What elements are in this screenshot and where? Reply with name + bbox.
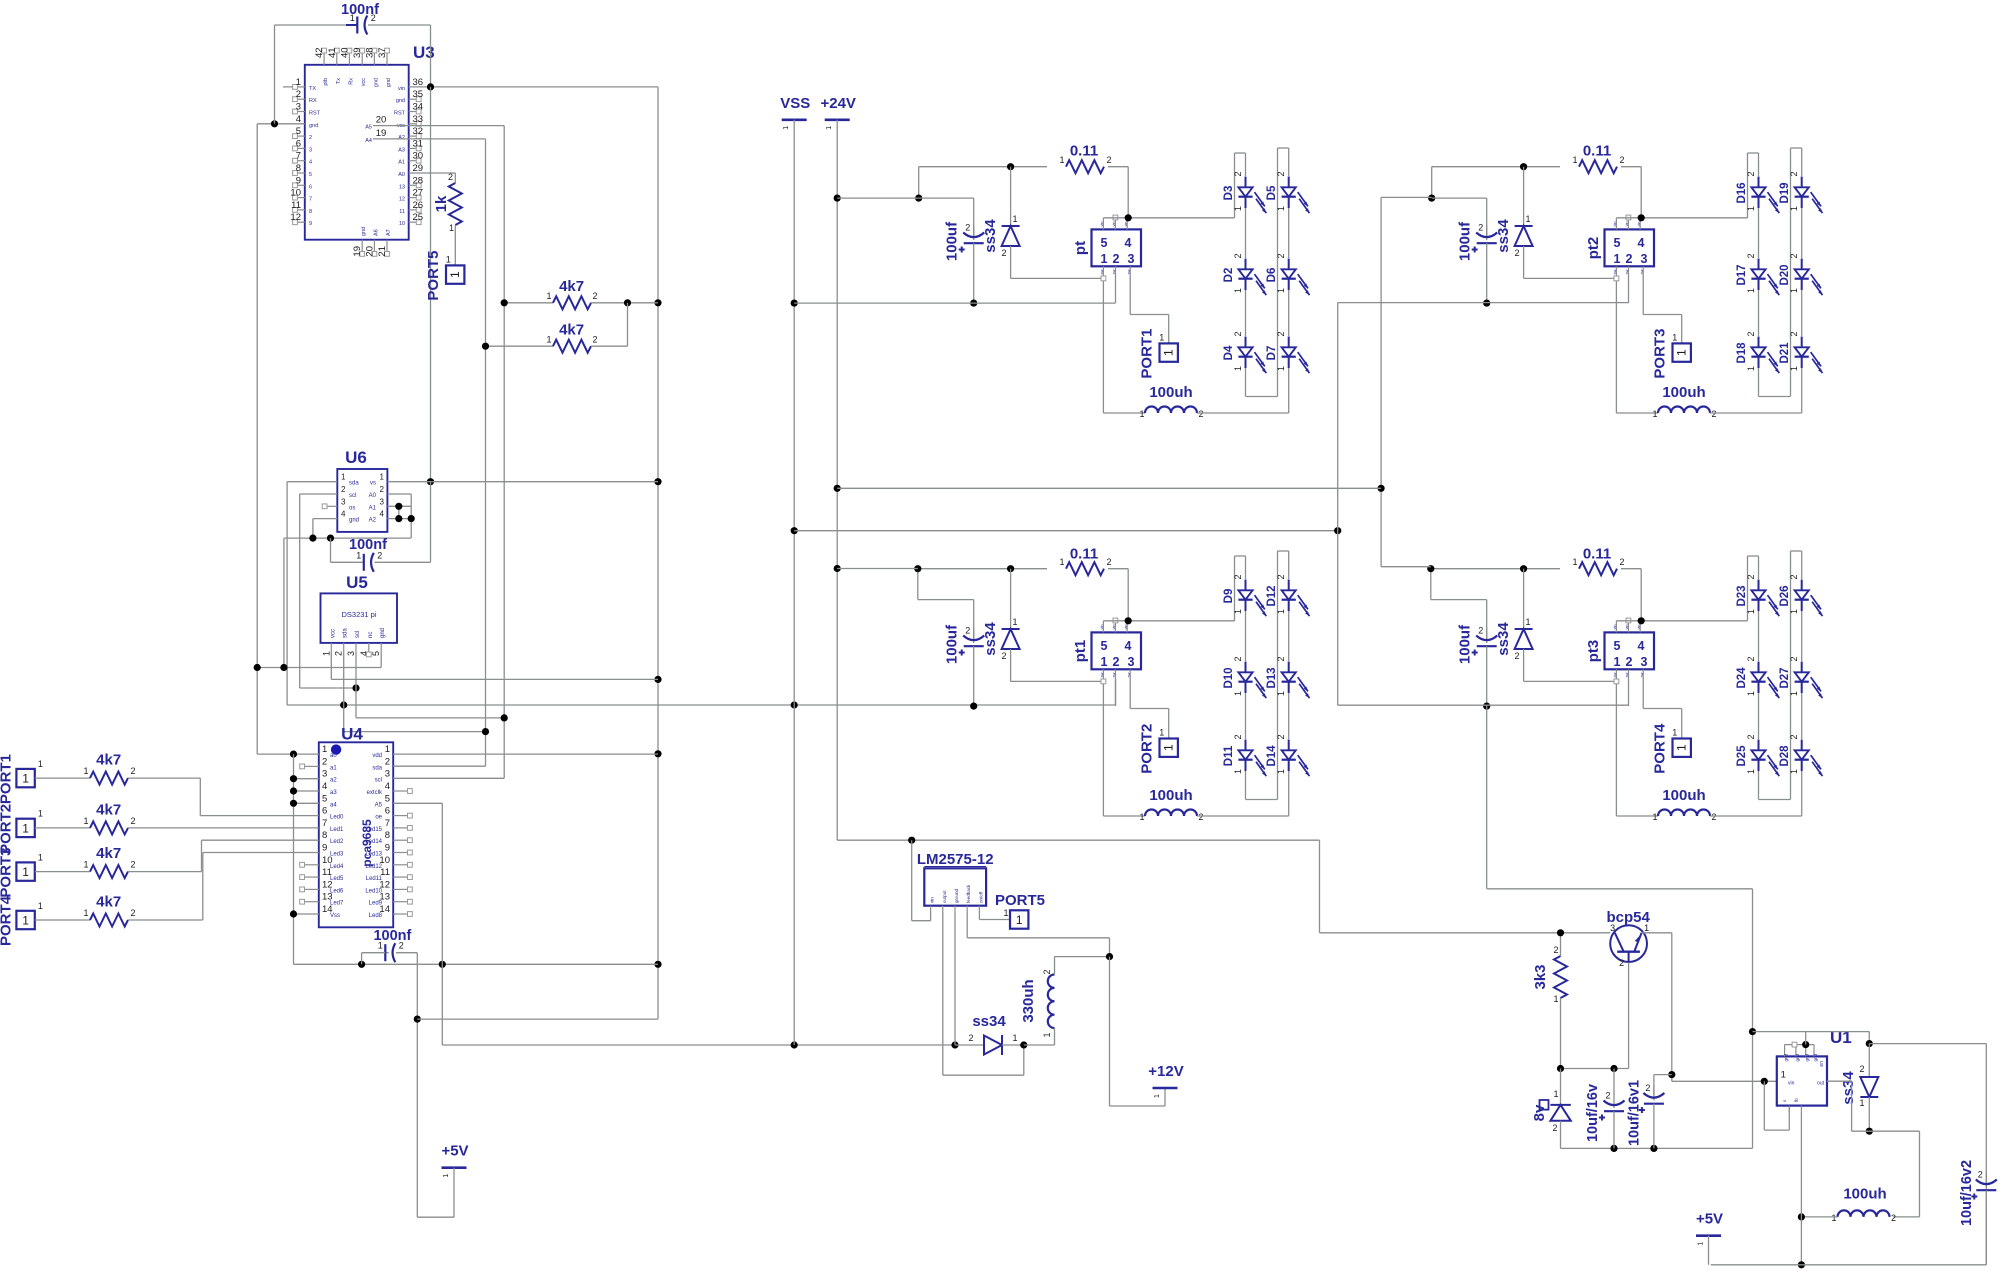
junctions a-chain: [290, 775, 297, 918]
svg-text:extclk: extclk: [367, 790, 383, 796]
svg-text:Rx: Rx: [348, 78, 354, 85]
svg-text:D25: D25: [1736, 745, 1748, 767]
junction x1338 y530: [1334, 527, 1341, 534]
connector PORT2 left: [0, 804, 56, 854]
svg-text:100uf: 100uf: [1457, 221, 1474, 261]
diode ss34 U1: [1840, 1044, 1878, 1132]
svg-text:1: 1: [443, 1174, 450, 1178]
svg-text:sda: sda: [372, 765, 382, 771]
wire U6 sda to gnd net: [287, 482, 1115, 705]
svg-text:1: 1: [1276, 691, 1286, 696]
svg-text:gnd: gnd: [396, 98, 405, 104]
svg-text:1: 1: [1672, 728, 1677, 738]
svg-text:PORT4: PORT4: [1652, 723, 1669, 774]
svg-text:PORT4: PORT4: [0, 895, 14, 946]
svg-text:30: 30: [413, 151, 424, 162]
LED D18: [1736, 331, 1779, 373]
svg-text:D14: D14: [1266, 745, 1278, 767]
svg-text:2: 2: [965, 223, 970, 233]
svg-text:6: 6: [309, 184, 312, 190]
svg-text:2: 2: [1042, 969, 1052, 974]
svg-text:D13: D13: [1266, 667, 1278, 688]
junction 100nf pin1: [358, 961, 365, 968]
svg-text:1: 1: [1276, 206, 1286, 211]
svg-text:2: 2: [1001, 651, 1006, 661]
junction bottom row: [1798, 1261, 1805, 1268]
wire pt2 pin2 to vss line: [1628, 276, 1630, 303]
svg-text:1: 1: [1233, 769, 1243, 774]
svg-text:2: 2: [1198, 812, 1203, 822]
svg-text:Led4: Led4: [330, 864, 344, 870]
wire bottom gnd row bcp54: [1561, 1147, 1753, 1149]
svg-text:10uf/16v2: 10uf/16v2: [1959, 1160, 1975, 1226]
wire U5 sda: [344, 652, 486, 732]
svg-text:1: 1: [1012, 1033, 1017, 1043]
wire U3 A4 line to sda riser: [373, 139, 486, 766]
svg-text:2: 2: [1113, 252, 1120, 266]
svg-text:a4: a4: [330, 802, 337, 808]
svg-text:nc: nc: [368, 632, 374, 638]
svg-text:sw: sw: [1100, 672, 1104, 677]
junction cap 16v1 branch: [1668, 1071, 1675, 1078]
junction U1 top wire: [1749, 1028, 1756, 1035]
svg-text:sw: sw: [1625, 672, 1629, 677]
svg-text:4k7: 4k7: [559, 278, 584, 295]
junction LM vin drop: [908, 837, 915, 844]
junction gnd links: [254, 664, 288, 671]
svg-text:7: 7: [322, 818, 327, 829]
svg-text:1: 1: [1572, 557, 1577, 567]
svg-text:gnd: gnd: [361, 227, 367, 236]
svg-text:TX: TX: [309, 86, 316, 92]
wire x1381 to block2 rail: [1381, 196, 1432, 198]
svg-text:1: 1: [356, 550, 361, 560]
junction LM ground pin: [951, 1041, 958, 1048]
svg-text:sda: sda: [349, 481, 359, 487]
svg-text:vcc: vcc: [361, 78, 367, 87]
svg-text:2: 2: [1478, 223, 1483, 233]
junction U1 gnd bus: [1802, 1041, 1809, 1048]
svg-text:D16: D16: [1736, 182, 1748, 203]
svg-text:1: 1: [1746, 288, 1756, 293]
wire bcp54 emitter: [1561, 962, 1629, 1068]
junction rail jog pt1: [914, 565, 921, 572]
wire pt3 output node to LEDs: [1616, 556, 1758, 621]
svg-text:1: 1: [1789, 288, 1799, 293]
junction x1381 y488: [1378, 485, 1385, 492]
wire U5 vcc: [331, 652, 658, 679]
svg-text:4k7: 4k7: [96, 894, 121, 911]
wire PORT4 to U4: [128, 853, 319, 921]
svg-text:100uh: 100uh: [1662, 787, 1705, 804]
svg-text:38: 38: [364, 47, 375, 58]
wire PORT1 to U4: [128, 778, 319, 816]
wire U1 fb vertical: [1800, 1112, 1802, 1265]
svg-text:41: 41: [327, 47, 338, 58]
junction output node pt2: [1638, 214, 1645, 221]
wire +24V y488 to x1381: [837, 487, 1381, 489]
svg-text:42: 42: [314, 47, 325, 58]
svg-text:9: 9: [296, 175, 301, 186]
svg-text:sw: sw: [1112, 672, 1116, 677]
svg-text:D4: D4: [1223, 345, 1235, 360]
svg-text:ss34: ss34: [982, 622, 999, 656]
svg-text:D21: D21: [1779, 342, 1791, 364]
junction rail jog pt: [915, 195, 922, 202]
wire rail to cap pt: [919, 198, 974, 236]
svg-text:2: 2: [341, 485, 346, 494]
svg-text:VSS: VSS: [780, 95, 810, 112]
junction sda-VSS: [791, 701, 798, 708]
svg-text:ptb: ptb: [323, 78, 329, 86]
resistor 4k7 PORT2: [56, 801, 136, 834]
wire pt1 pin1 to inductor: [1103, 684, 1145, 816]
svg-text:2: 2: [1233, 656, 1243, 661]
svg-text:sw: sw: [1613, 672, 1617, 677]
wire pt pin3 to PORT1: [1130, 273, 1169, 343]
wire pt2 pin1 to inductor: [1616, 281, 1658, 413]
svg-text:1: 1: [546, 291, 551, 301]
svg-text:pt2: pt2: [1585, 237, 1602, 260]
svg-text:vin: vin: [1788, 1081, 1795, 1087]
svg-text:ss34: ss34: [1840, 1071, 1857, 1105]
svg-text:6: 6: [385, 806, 390, 817]
svg-text:35: 35: [413, 89, 424, 100]
svg-text:1: 1: [1831, 1213, 1836, 1223]
svg-text:D2: D2: [1223, 268, 1235, 283]
op-amp pt driver IC: [1072, 215, 1141, 281]
wire bottom row right: [1711, 1044, 1987, 1265]
power +5V right: [1696, 1211, 1723, 1265]
junction ss34 top pt1: [1007, 565, 1014, 572]
junction A5 drop: [439, 961, 446, 968]
junction rail jog pt3: [1427, 565, 1434, 572]
svg-text:RST: RST: [309, 111, 321, 117]
junction ss34 top pt3: [1520, 565, 1527, 572]
svg-text:pt: pt: [1072, 241, 1089, 255]
svg-text:27: 27: [413, 188, 424, 199]
LED D3: [1223, 171, 1266, 213]
wire LED chain col0 pt3: [1759, 551, 1802, 800]
svg-text:1: 1: [1101, 252, 1108, 266]
svg-text:4: 4: [1638, 236, 1645, 250]
svg-text:2: 2: [322, 756, 327, 767]
wire VCC bus vertical x658: [657, 87, 659, 1019]
op-amp U6 io-expander box: [337, 448, 387, 532]
inductor 100uh U1: [1801, 1186, 1896, 1224]
inductor 330uh: [1020, 957, 1110, 1045]
svg-text:vs: vs: [370, 481, 376, 487]
svg-text:vin: vin: [1100, 222, 1104, 227]
svg-text:1: 1: [1276, 288, 1286, 293]
svg-text:330uh: 330uh: [1020, 979, 1037, 1022]
wire pt1 pin3 to PORT2: [1130, 676, 1169, 739]
capacitor 10uf/16v: [1585, 1069, 1625, 1149]
junction feedback node: [1106, 953, 1113, 960]
svg-text:4: 4: [380, 510, 385, 519]
svg-text:D26: D26: [1779, 585, 1791, 606]
LED D2: [1223, 253, 1266, 295]
junction U1 vin: [1761, 1078, 1768, 1085]
svg-text:vdd: vdd: [372, 753, 382, 759]
svg-text:2: 2: [130, 766, 135, 776]
power +24V: [820, 95, 855, 840]
svg-text:2: 2: [1746, 253, 1756, 258]
svg-text:1: 1: [1572, 155, 1577, 165]
svg-text:+12V: +12V: [1148, 1063, 1183, 1080]
junction A1 A2 link: [395, 503, 402, 523]
capacitor 10uf/16v1: [1627, 1080, 1665, 1148]
svg-text:1: 1: [1789, 366, 1799, 371]
svg-text:1k: 1k: [433, 195, 450, 212]
svg-text:1: 1: [1233, 366, 1243, 371]
junction on U3 pin4 wire: [271, 120, 278, 127]
svg-text:D9: D9: [1223, 589, 1235, 604]
svg-text:3: 3: [346, 651, 356, 656]
LED D19: [1779, 171, 1822, 213]
svg-text:2: 2: [1619, 958, 1624, 968]
svg-text:1: 1: [1276, 769, 1286, 774]
svg-text:3: 3: [341, 497, 346, 506]
op-amp U3 MCU box: [283, 43, 435, 257]
junction +24V y488: [834, 485, 841, 492]
LED D23: [1736, 574, 1779, 616]
wire LM ground: [954, 912, 956, 1045]
inductor 100uh pt3: [1652, 787, 1801, 822]
junction U1 fb node: [1798, 1213, 1805, 1220]
svg-text:1: 1: [1698, 1242, 1705, 1246]
resistor 0.11 sense pt3: [1431, 546, 1641, 640]
junction scl riser: [501, 714, 508, 721]
svg-text:vin: vin: [1613, 222, 1617, 227]
wire branch to cap 16v1: [1654, 1075, 1672, 1095]
resistor R3 4k7 pullup sda: [486, 303, 628, 353]
svg-text:1: 1: [22, 772, 29, 786]
svg-text:vcc: vcc: [330, 629, 336, 638]
svg-text:7: 7: [296, 151, 301, 162]
svg-text:1: 1: [1781, 1070, 1786, 1081]
svg-text:1: 1: [322, 744, 327, 755]
wire +24V corner to LM area and bcp54 base: [837, 840, 1610, 933]
svg-text:1: 1: [83, 860, 88, 870]
svg-text:+24V: +24V: [820, 95, 855, 112]
svg-text:+5V: +5V: [1696, 1211, 1723, 1228]
svg-text:sda: sda: [343, 628, 349, 638]
svg-text:100uf: 100uf: [944, 624, 961, 664]
svg-text:2: 2: [592, 335, 597, 345]
connector PORT4 block: [1652, 723, 1691, 774]
svg-text:U4: U4: [341, 725, 363, 744]
svg-text:gnd: gnd: [1795, 1054, 1800, 1062]
svg-text:gnd: gnd: [1784, 1054, 1789, 1062]
wire pt3 pin3 to PORT4: [1643, 676, 1682, 739]
wire x1381 to block4 rail: [1381, 566, 1431, 568]
svg-text:1: 1: [38, 901, 43, 911]
svg-text:2: 2: [1789, 253, 1799, 258]
connector PORT3 block: [1652, 329, 1691, 379]
svg-text:sw: sw: [1625, 269, 1629, 274]
svg-text:A5: A5: [375, 802, 383, 808]
svg-text:1: 1: [1276, 366, 1286, 371]
wire pt pin1 to inductor: [1103, 281, 1145, 413]
svg-text:A2: A2: [398, 135, 405, 141]
svg-text:PORT2: PORT2: [0, 804, 14, 854]
svg-text:2: 2: [380, 485, 385, 494]
svg-text:100uf: 100uf: [944, 221, 961, 261]
LED D4: [1223, 331, 1266, 373]
svg-text:32: 32: [413, 126, 424, 137]
svg-text:1: 1: [448, 271, 462, 278]
svg-text:1: 1: [1746, 206, 1756, 211]
svg-text:gnd: gnd: [386, 78, 392, 87]
svg-text:2: 2: [1619, 557, 1624, 567]
wire pt1 pin2 to vss line: [1115, 679, 1117, 706]
wire LED chain col1 pt1: [1288, 611, 1290, 816]
svg-text:gnd: gnd: [373, 78, 379, 87]
svg-text:gnd: gnd: [1805, 1054, 1810, 1062]
svg-text:1: 1: [1139, 409, 1144, 419]
svg-text:D7: D7: [1266, 346, 1278, 361]
svg-text:3: 3: [296, 102, 301, 113]
svg-text:2: 2: [965, 626, 970, 636]
svg-text:U5: U5: [346, 573, 368, 592]
junction ss34 U1 top: [1866, 1040, 1873, 1047]
wire block3 VSS already via y705: [1115, 679, 1117, 705]
svg-text:4k7: 4k7: [559, 322, 584, 339]
svg-text:3: 3: [309, 147, 312, 153]
svg-text:1: 1: [1672, 332, 1677, 342]
svg-text:20: 20: [376, 115, 387, 126]
svg-text:1: 1: [1789, 769, 1799, 774]
junction ss34 top pt: [1007, 163, 1014, 170]
svg-text:2: 2: [1276, 253, 1286, 258]
capacitor C3 100nf under U4: [362, 928, 418, 1217]
svg-text:PORT1: PORT1: [1139, 329, 1156, 379]
svg-text:100uh: 100uh: [1149, 787, 1192, 804]
svg-text:D27: D27: [1779, 667, 1791, 688]
junction U6 gnd: [309, 535, 316, 542]
svg-text:1: 1: [1233, 609, 1243, 614]
svg-text:1: 1: [378, 941, 383, 951]
svg-text:1: 1: [22, 914, 29, 928]
svg-text:D24: D24: [1736, 667, 1748, 689]
capacitor C2 100nf under U6: [331, 482, 431, 572]
junction cap bottom pt1: [970, 703, 977, 710]
svg-text:vin: vin: [1625, 222, 1629, 227]
svg-text:D12: D12: [1266, 585, 1278, 606]
junction +5V node: [414, 1016, 421, 1023]
svg-text:vin: vin: [1637, 222, 1641, 227]
svg-text:U6: U6: [345, 448, 367, 467]
svg-text:vin: vin: [1112, 222, 1116, 227]
svg-text:3: 3: [1128, 252, 1135, 266]
svg-text:fb: fb: [1794, 1098, 1799, 1102]
wire vertical x430 down to U6 vs line: [430, 87, 432, 482]
junction x430 vs line: [427, 478, 434, 485]
junction pullup b: [482, 343, 489, 350]
svg-text:2: 2: [1106, 557, 1111, 567]
svg-text:ground: ground: [954, 888, 959, 903]
svg-text:ss34: ss34: [982, 219, 999, 253]
svg-text:4: 4: [1638, 639, 1645, 653]
wire VSS line A y303 block1: [794, 302, 1115, 304]
capacitor 100uf pt: [944, 221, 985, 303]
svg-text:2: 2: [1746, 734, 1756, 739]
wire U5 gnd: [257, 652, 381, 668]
svg-text:2: 2: [1746, 171, 1756, 176]
wire left bus vertical U3.4 to U4.1: [256, 124, 258, 754]
svg-text:1: 1: [1789, 691, 1799, 696]
wire U6 scl: [300, 494, 356, 688]
svg-text:1: 1: [1016, 913, 1023, 927]
capacitor 10uf/16v2: [1959, 1160, 1997, 1265]
op-amp U4 pca9685 box: [300, 725, 413, 928]
junction 3k3 top: [1557, 929, 1564, 936]
svg-text:33: 33: [413, 114, 424, 125]
svg-text:1: 1: [1162, 349, 1176, 356]
svg-text:Led2: Led2: [330, 839, 344, 845]
svg-text:2: 2: [1746, 331, 1756, 336]
svg-text:2: 2: [1746, 656, 1756, 661]
junction ss34 U1 bottom: [1866, 1128, 1873, 1135]
resistor R6 3k3: [1532, 933, 1567, 1069]
svg-text:ss34: ss34: [1495, 622, 1512, 656]
resistor 4k7 PORT3: [56, 845, 136, 878]
junction rail jog pt2: [1428, 195, 1435, 202]
svg-text:2: 2: [130, 816, 135, 826]
svg-text:1: 1: [1675, 349, 1689, 356]
wire U4 a2 a3 a4 stubs: [294, 779, 319, 914]
svg-text:1: 1: [1003, 908, 1008, 918]
junction caps bottom: [1610, 1145, 1657, 1152]
svg-text:9: 9: [322, 843, 327, 854]
svg-text:+5V: +5V: [441, 1143, 468, 1160]
svg-text:gnd: gnd: [349, 518, 359, 524]
junction VSS bottom: [791, 1041, 798, 1048]
svg-text:5: 5: [322, 793, 327, 804]
svg-text:5: 5: [371, 651, 381, 656]
wire block4 VSS line y705: [1338, 704, 1629, 706]
wire U6 vs line to VCC: [387, 481, 658, 483]
LED D17: [1736, 253, 1779, 295]
wire gnd row under U4: [294, 963, 659, 965]
op-amp pt2 driver IC: [1585, 215, 1654, 281]
svg-text:2: 2: [1233, 574, 1243, 579]
wire block2 feed vertical x1381: [1380, 197, 1382, 566]
svg-text:3k3: 3k3: [1532, 964, 1549, 989]
svg-text:1: 1: [1746, 691, 1756, 696]
wire U3 pin36 vcc to VCC bus: [409, 86, 658, 88]
svg-text:21: 21: [377, 246, 388, 257]
svg-text:37: 37: [377, 47, 388, 58]
svg-text:1: 1: [1012, 617, 1017, 627]
svg-text:feedback: feedback: [966, 884, 971, 903]
svg-text:D11: D11: [1223, 745, 1235, 766]
svg-text:en: en: [1819, 1061, 1825, 1067]
svg-text:Led8: Led8: [369, 913, 383, 919]
wire VSS vertical x1338: [1337, 303, 1339, 706]
svg-text:100uh: 100uh: [1843, 1186, 1886, 1203]
wire U6 A2: [387, 518, 411, 520]
svg-text:1: 1: [321, 651, 331, 656]
svg-text:Led0: Led0: [330, 815, 344, 821]
junction U6 cap: [327, 535, 334, 542]
svg-text:1: 1: [1746, 769, 1756, 774]
svg-text:A1: A1: [398, 160, 405, 166]
svg-text:8: 8: [322, 830, 327, 841]
svg-text:vin: vin: [930, 897, 935, 903]
svg-text:4: 4: [1125, 639, 1132, 653]
